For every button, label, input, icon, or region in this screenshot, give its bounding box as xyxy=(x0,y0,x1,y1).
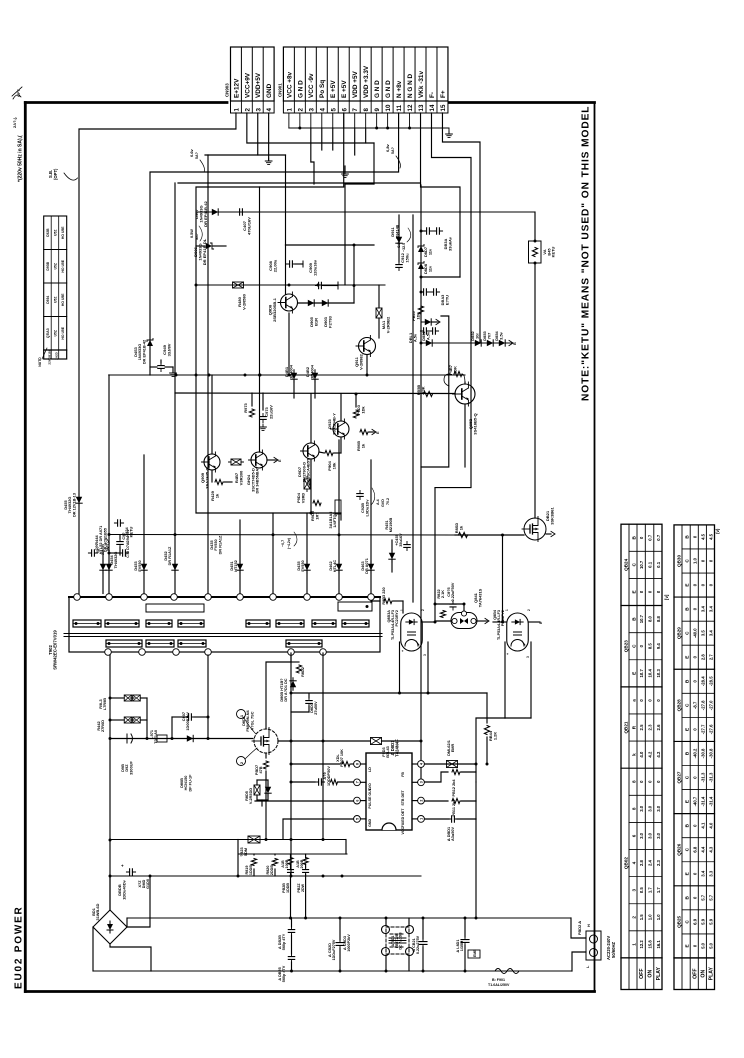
svg-text:DR A071: DR A071 xyxy=(365,557,369,574)
svg-text:D93B: D93B xyxy=(46,261,50,270)
wire Q911 links xyxy=(378,285,380,307)
diode D903 xyxy=(319,300,331,306)
svg-text:2DW: 2DW xyxy=(301,883,305,892)
wire x341 drop xyxy=(340,513,342,520)
svg-text:5: 5 xyxy=(356,818,360,820)
svg-text:-28.5: -28.5 xyxy=(709,676,714,686)
svg-text:A.5v: A.5v xyxy=(425,331,430,340)
svg-text:5: 5 xyxy=(330,108,337,112)
svg-text:QB21: QB21 xyxy=(623,721,628,733)
wire CN901 pin 3 stub xyxy=(310,113,312,128)
svg-text:k: k xyxy=(631,753,636,756)
wire Q801 gate xyxy=(110,738,253,740)
svg-text:PC23FY2: PC23FY2 xyxy=(501,610,505,626)
svg-text:4: 4 xyxy=(319,108,326,112)
ground chassis xyxy=(448,128,450,133)
resistor R856 xyxy=(424,391,433,396)
svg-text:VCC+9V: VCC+9V xyxy=(244,72,251,98)
svg-text:FB: FB xyxy=(401,772,405,777)
svg-text:1/4FTQ2: 1/4FTQ2 xyxy=(333,512,337,527)
svg-text:150u: 150u xyxy=(404,253,409,263)
transistor Q903 xyxy=(331,419,350,439)
annotation circled 2 xyxy=(237,757,246,766)
svg-text:N +8v: N +8v xyxy=(396,80,403,98)
svg-text:2.7: 2.7 xyxy=(709,654,714,661)
wire secondary x240 xyxy=(239,520,241,594)
svg-text:-30.8: -30.8 xyxy=(709,748,714,758)
svg-text:DR A?D1 DC: DR A?D1 DC xyxy=(284,678,288,701)
capacitor C920 xyxy=(357,490,363,499)
svg-text:PLAY: PLAY xyxy=(656,966,662,980)
svg-text:CN903: CN903 xyxy=(225,83,230,97)
wire secondary x371 xyxy=(370,460,372,594)
wire rail x354 xyxy=(353,245,355,303)
transistor Q907 xyxy=(301,441,320,461)
wire CN901 pin 8 stub xyxy=(365,113,367,128)
wire bus y393 xyxy=(175,392,455,395)
IC pin 6 PULSE OUT xyxy=(354,797,361,804)
svg-text:DF FU-1F: DF FU-1F xyxy=(188,774,192,792)
svg-text:10: 10 xyxy=(385,104,392,111)
svg-text:VDD +5V: VDD +5V xyxy=(352,70,359,98)
svg-text:QB28: QB28 xyxy=(676,699,681,711)
svg-text:8.0: 8.0 xyxy=(648,616,653,623)
svg-text:1DDB: 1DDB xyxy=(249,865,253,876)
svg-text:T1.6AL/250V: T1.6AL/250V xyxy=(488,983,510,987)
svg-text:1.5: 1.5 xyxy=(639,914,644,921)
capacitor C827 xyxy=(419,938,427,947)
wire GND run xyxy=(268,113,270,160)
svg-text:12: 12 xyxy=(407,104,414,111)
svg-text:EMB: EMB xyxy=(473,949,477,957)
svg-text:-31.4: -31.4 xyxy=(709,796,714,806)
svg-text:3.4: 3.4 xyxy=(701,606,706,613)
svg-text:1.7: 1.7 xyxy=(648,887,653,894)
svg-text:V3R300: V3R300 xyxy=(238,470,243,485)
svg-text:E +5V: E +5V xyxy=(330,80,337,98)
svg-text:QB25: QB25 xyxy=(676,915,681,927)
svg-text:L9Du1Dv: L9Du1Dv xyxy=(364,499,369,517)
wire x290 x305 down xyxy=(290,876,292,918)
svg-text:ON: ON xyxy=(701,970,707,978)
svg-text:1: 1 xyxy=(400,609,404,611)
annotation circled 1 xyxy=(237,710,246,719)
svg-text:VDD +3.3V: VDD +3.3V xyxy=(363,65,370,98)
wire rail x435 xyxy=(434,488,436,604)
wire clamp xyxy=(256,780,258,785)
svg-text:QB27: QB27 xyxy=(676,771,681,783)
svg-text:5.9: 5.9 xyxy=(701,918,706,925)
svg-text:E+12V: E+12V xyxy=(233,78,240,98)
wire bus y918 xyxy=(127,917,571,919)
svg-text:5.7: 5.7 xyxy=(709,894,714,901)
capacitor C924 KETU xyxy=(114,520,123,526)
diode D80B xyxy=(184,735,196,741)
svg-text:~32.5: ~32.5 xyxy=(402,243,406,252)
svg-text:B: F901: B: F901 xyxy=(492,978,505,982)
ground C973 xyxy=(260,424,267,430)
zener D857 xyxy=(418,244,424,252)
svg-text:F+: F+ xyxy=(440,90,447,98)
svg-text:3.0: 3.0 xyxy=(639,805,644,812)
svg-text:~S.D: ~S.D xyxy=(397,242,401,250)
svg-text:*(220v 50Hz in SA),(: *(220v 50Hz in SA),( xyxy=(18,135,24,182)
resistor R905 xyxy=(313,500,321,505)
svg-text:DR 12V1B-13: DR 12V1B-13 xyxy=(72,493,76,517)
svg-text:PB07 10K: PB07 10K xyxy=(340,749,344,767)
svg-text:5.7: 5.7 xyxy=(701,894,706,901)
svg-text:E: E xyxy=(684,872,689,875)
table parts note xyxy=(38,216,67,367)
wire pin4 drop xyxy=(321,128,323,150)
svg-text:HO U5E: HO U5E xyxy=(61,326,65,339)
svg-text:1Dk: 1Dk xyxy=(415,312,420,320)
svg-text:VDD+5V: VDD+5V xyxy=(255,72,262,98)
capacitor C828 EMB xyxy=(461,936,469,945)
resistor R903 xyxy=(353,410,358,418)
svg-text:H: H xyxy=(587,924,591,927)
svg-text:1DK: 1DK xyxy=(452,366,457,374)
transformer windings bottom xyxy=(106,640,142,647)
svg-text:13: 13 xyxy=(418,104,425,111)
svg-text:-8.7: -8.7 xyxy=(692,701,697,709)
wire x238 xyxy=(237,840,239,877)
svg-text:8: 8 xyxy=(631,780,636,783)
wire rail x110 primary xyxy=(109,655,111,910)
svg-text:1.0: 1.0 xyxy=(656,914,661,921)
transformer pin bottom 4 xyxy=(205,649,212,656)
svg-text:OPT: OPT xyxy=(17,89,21,97)
svg-text:+: + xyxy=(120,864,125,867)
junction CN901 pin 12 xyxy=(408,127,411,130)
wire secondary x339 xyxy=(338,440,340,594)
svg-text:DC 7A1DB: DC 7A1DB xyxy=(399,932,403,950)
svg-text:0.7: 0.7 xyxy=(656,534,661,541)
svg-text:7: 7 xyxy=(356,781,360,783)
svg-text:2DDB: 2DDB xyxy=(270,865,274,876)
capacitor C902 xyxy=(127,734,133,743)
wire Q913 emitter xyxy=(288,313,290,375)
wire pin4 right xyxy=(425,763,477,765)
wire opto1 y622 xyxy=(423,621,436,623)
svg-text:Po Sq: Po Sq xyxy=(319,80,326,98)
svg-text:33K: 33K xyxy=(420,386,425,393)
svg-text:SA?: SA? xyxy=(195,233,199,240)
svg-text:LD: LD xyxy=(368,767,372,772)
svg-text:4.2: 4.2 xyxy=(648,751,653,758)
svg-text:33u6Av: 33u6Av xyxy=(447,236,452,251)
svg-text:1.7: 1.7 xyxy=(656,887,661,894)
svg-text:0.5W: 0.5W xyxy=(190,229,194,238)
svg-text:6: 6 xyxy=(356,800,360,802)
transistor Q913 xyxy=(278,292,298,313)
wire Q801 drain xyxy=(266,656,291,729)
svg-text:70.2: 70.2 xyxy=(386,498,390,505)
svg-text:QB24: QB24 xyxy=(623,558,628,570)
diode D905 xyxy=(305,300,317,306)
svg-text:3,5v: 3,5v xyxy=(498,331,503,339)
svg-text:2A?,(,: 2A?,(, xyxy=(12,117,17,128)
capacitor C407 xyxy=(236,209,245,215)
svg-text:Q7IA3: Q7IA3 xyxy=(46,328,50,338)
svg-text:4.3: 4.3 xyxy=(709,846,714,853)
svg-text:4.2: 4.2 xyxy=(656,751,661,758)
wire bus y375 xyxy=(109,374,465,376)
wire CN901 pin 2 stub xyxy=(299,113,301,128)
wire rail x374 xyxy=(373,143,375,184)
svg-text:4.5: 4.5 xyxy=(701,533,706,540)
svg-text:DR EP41B-DL: DR EP41B-DL xyxy=(202,238,207,265)
svg-text:3.4: 3.4 xyxy=(701,870,706,877)
svg-text:1000P2kV: 1000P2kV xyxy=(347,934,351,952)
svg-text:R8D2: R8D2 xyxy=(301,667,305,677)
svg-text:5.0: 5.0 xyxy=(709,942,714,949)
svg-text:10.4: 10.4 xyxy=(648,669,653,678)
transformer pin bottom 3 xyxy=(173,649,180,656)
svg-text:U5Z: U5Z xyxy=(54,297,58,303)
resistor R840 xyxy=(418,306,423,314)
svg-text:3: 3 xyxy=(420,781,424,783)
svg-text:E +5V: E +5V xyxy=(341,80,348,98)
transformer pin top 5 xyxy=(205,594,212,601)
svg-text:47B: 47B xyxy=(259,766,263,773)
wire secondary x144 xyxy=(143,455,145,594)
svg-text:10r: 10r xyxy=(474,333,479,339)
diodes D451 D452 on bus xyxy=(291,370,297,382)
svg-text:DR R1A1Z: DR R1A1Z xyxy=(168,546,172,565)
wire y277 xyxy=(421,276,460,278)
transformer aux winding 2 xyxy=(338,602,372,611)
svg-text:200B: 200B xyxy=(300,859,304,868)
wire CN901 pin 7 stub xyxy=(354,113,356,128)
svg-text:4: 4 xyxy=(420,763,424,765)
resistor R826 xyxy=(288,858,293,865)
capacitor C825 xyxy=(288,953,294,962)
wire CN901 pin 13 stub xyxy=(420,113,422,128)
svg-text:U5Z: U5Z xyxy=(54,330,58,336)
svg-text:11v: 11v xyxy=(427,248,432,255)
diode D852b xyxy=(472,340,484,346)
svg-text:QB30: QB30 xyxy=(676,555,681,567)
wire y303 xyxy=(298,302,354,304)
svg-text:V-2R5DD: V-2R5DD xyxy=(249,788,253,804)
svg-text:-27.6: -27.6 xyxy=(709,724,714,734)
svg-text:VKk -31v: VKk -31v xyxy=(418,71,425,98)
wire Q821 source xyxy=(546,533,551,535)
svg-text:10.3: 10.3 xyxy=(656,669,661,678)
svg-text:V-2R9B2: V-2R9B2 xyxy=(385,316,390,333)
svg-text:U5Z: U5Z xyxy=(54,230,58,236)
svg-text:3300UF: 3300UF xyxy=(129,761,133,775)
capacitor C445 xyxy=(119,550,128,556)
table transistor voltages 1 xyxy=(621,524,669,989)
IC Q801 T424N4F xyxy=(366,753,412,830)
diode D855 xyxy=(422,319,434,325)
svg-text:HO U5E: HO U5E xyxy=(61,293,65,306)
wire VCC+9V run xyxy=(247,113,374,143)
wire CN901 pin 1 stub xyxy=(288,113,290,128)
transformer T902 xyxy=(69,597,380,652)
svg-text:M2190B: M2190B xyxy=(389,518,393,533)
svg-text:0.5: 0.5 xyxy=(639,887,644,894)
svg-text:6.8: 6.8 xyxy=(692,846,697,853)
IC pin 8 LD xyxy=(354,761,361,768)
transformer pin top 6 xyxy=(237,594,244,601)
svg-text:3.5: 3.5 xyxy=(701,630,706,637)
transformer pin bottom 5 xyxy=(288,649,295,656)
svg-text:L7R9B: L7R9B xyxy=(103,698,107,710)
capacitor C854 xyxy=(423,228,432,234)
svg-text:DR R1A1Z: DR R1A1Z xyxy=(218,535,222,554)
svg-text:-40.7: -40.7 xyxy=(692,796,697,806)
svg-text:V-2R982: V-2R982 xyxy=(358,353,363,369)
wire gate drop xyxy=(502,535,504,622)
svg-text:3: 3 xyxy=(631,888,636,891)
svg-text:120u16v: 120u16v xyxy=(312,259,317,276)
resistor R443 pair xyxy=(122,695,135,701)
svg-text:FIXED DET: FIXED DET xyxy=(401,808,405,828)
svg-text:HO U5E: HO U5E xyxy=(61,226,65,239)
svg-text:R973: R973 xyxy=(243,402,248,412)
wire rail x413 xyxy=(412,215,414,602)
svg-text:100B: 100B xyxy=(285,859,289,868)
svg-text:NOTE:"KETU" MEANS "NOT USED" O: NOTE:"KETU" MEANS "NOT USED" ON THIS MOD… xyxy=(581,106,592,401)
capacitor C455 xyxy=(404,541,410,550)
svg-text:(v): (v) xyxy=(715,528,720,534)
svg-text:1N4004: 1N4004 xyxy=(309,364,314,379)
svg-text:10.7: 10.7 xyxy=(639,560,644,569)
svg-text:5.0: 5.0 xyxy=(701,942,706,949)
resistor R809 xyxy=(265,753,267,758)
svg-text:4.1: 4.1 xyxy=(701,822,706,829)
resistor R487 xyxy=(229,459,244,465)
svg-text:2.8: 2.8 xyxy=(639,859,644,866)
svg-text:GND: GND xyxy=(368,819,372,827)
svg-text:3: 3 xyxy=(308,108,315,112)
capacitor C826 xyxy=(288,926,294,935)
svg-text:DR EP41B-42: DR EP41B-42 xyxy=(203,200,208,226)
wire rail x291 primary xyxy=(290,653,292,875)
wire x346 xyxy=(345,840,347,855)
svg-text:0.1: 0.1 xyxy=(656,561,661,568)
svg-text:-40.0: -40.0 xyxy=(692,628,697,638)
svg-text:15: 15 xyxy=(440,104,447,111)
svg-text:1: 1 xyxy=(420,818,424,820)
wire bus y876 xyxy=(110,875,421,877)
wire pin3 right xyxy=(425,772,449,782)
svg-text:QB02: QB02 xyxy=(623,857,628,869)
svg-text:-27.0: -27.0 xyxy=(709,700,714,710)
resistor R807 xyxy=(291,763,340,765)
resistor R827 xyxy=(303,858,308,865)
svg-text:8: 8 xyxy=(363,108,370,112)
svg-text:4: 4 xyxy=(266,108,273,112)
svg-text:-31.4: -31.4 xyxy=(701,796,706,806)
diode D435 xyxy=(304,561,310,573)
svg-text:a: a xyxy=(631,699,636,702)
wire F- run xyxy=(431,113,471,488)
svg-text:1: 1 xyxy=(505,609,509,611)
resistor DML62 xyxy=(444,761,460,768)
svg-text:10.7: 10.7 xyxy=(639,614,644,623)
svg-text:V-2R580: V-2R580 xyxy=(241,293,246,309)
svg-text:3: 3 xyxy=(423,654,427,656)
wire y343 xyxy=(421,342,513,344)
diode D463 xyxy=(368,561,374,573)
wire vcc to bus xyxy=(475,819,477,918)
capacitor C973 xyxy=(260,413,266,422)
capacitor C851 xyxy=(420,328,429,334)
transformer core xyxy=(64,633,382,635)
svg-text:14: 14 xyxy=(429,104,436,111)
svg-text:3SA1845-Q: 3SA1845-Q xyxy=(204,467,209,488)
wire bus y285 xyxy=(196,284,385,286)
wire CN901 pin 6 stub xyxy=(343,113,345,128)
IC pin 1 VCC xyxy=(418,816,425,823)
svg-text:E: E xyxy=(631,590,636,593)
svg-text:(OPT): (OPT) xyxy=(53,168,58,180)
svg-text:E: E xyxy=(684,656,689,659)
resistor R442 pair xyxy=(122,717,135,723)
wire N+8v run xyxy=(150,113,399,375)
wire GND bus xyxy=(289,127,449,129)
wire CN901 pin 9 stub xyxy=(376,113,378,128)
wire pin13 branch xyxy=(421,183,460,277)
svg-text:VCC: VCC xyxy=(401,827,405,835)
mosfet Q821 xyxy=(534,263,536,518)
svg-text:SRW42EC-E07V019: SRW42EC-E07V019 xyxy=(53,630,58,670)
svg-text:EU02 POWER: EU02 POWER xyxy=(14,905,25,989)
svg-text:3.4: 3.4 xyxy=(709,606,714,613)
wire y839 bus xyxy=(110,839,346,841)
wire pin5 left xyxy=(283,819,354,839)
svg-text:2: 2 xyxy=(421,609,425,611)
svg-text:DR HCR1B55: DR HCR1B55 xyxy=(103,527,107,552)
svg-text:16.1: 16.1 xyxy=(656,940,661,949)
svg-text:0.1: 0.1 xyxy=(648,561,653,568)
svg-text:G N D: G N D xyxy=(297,80,304,98)
capacitors C818 C819 xyxy=(288,866,294,875)
svg-text:2A2D: 2A2D xyxy=(55,351,59,360)
svg-text:4.4: 4.4 xyxy=(701,846,706,853)
resistor R844 xyxy=(486,737,488,764)
transformer aux winding xyxy=(146,604,204,612)
svg-text:2SB320SB-1: 2SB320SB-1 xyxy=(272,297,277,322)
transformer pin top 10 xyxy=(368,594,375,601)
transistor Q911 xyxy=(356,336,376,357)
svg-text:0.6v: 0.6v xyxy=(189,148,194,157)
svg-text:5DM: 5DM xyxy=(244,848,248,856)
svg-text:[v]: [v] xyxy=(664,594,669,600)
svg-text:OFF: OFF xyxy=(639,969,645,979)
svg-text:5.9: 5.9 xyxy=(709,918,714,925)
wire Q903 leads xyxy=(340,394,342,421)
svg-text:3: 3 xyxy=(255,108,262,112)
svg-text:1.0: 1.0 xyxy=(648,914,653,921)
svg-text:1DDuF275V: 1DDuF275V xyxy=(332,939,336,960)
diode D907 xyxy=(209,209,221,215)
diode D459 xyxy=(389,550,395,562)
svg-text:7: 7 xyxy=(352,108,359,112)
wire Q910 leads xyxy=(259,187,261,452)
wire CN901 pin 4 stub xyxy=(321,113,323,128)
svg-text:6.9: 6.9 xyxy=(692,918,697,925)
svg-text:50/60HZ: 50/60HZ xyxy=(611,941,616,958)
capacitor C443 xyxy=(88,550,97,556)
svg-text:9: 9 xyxy=(374,108,381,112)
junction CN901 pin 10 xyxy=(386,127,389,130)
svg-text:470U/16V: 470U/16V xyxy=(246,217,251,235)
